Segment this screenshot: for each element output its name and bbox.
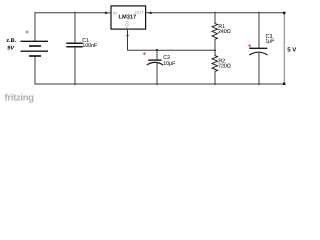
wire ADJ pin to R1/R2 divider junction xyxy=(128,36,216,51)
svg-text:IN: IN xyxy=(113,10,117,15)
C3 plus mark xyxy=(248,44,251,47)
resistor R1 240 ohm xyxy=(212,12,217,50)
label R1 240 xyxy=(218,24,231,35)
pin ADJ stub xyxy=(127,29,129,35)
wire top rail right (LM317 OUT pin to output node) xyxy=(151,12,284,14)
C2 plus mark xyxy=(143,52,146,55)
svg-text:OUT: OUT xyxy=(135,10,144,15)
svg-text:1µF: 1µF xyxy=(265,39,275,45)
wire output load (gray) xyxy=(283,13,285,84)
node output bottom terminal xyxy=(283,83,285,85)
svg-text:LM317: LM317 xyxy=(119,14,137,20)
svg-text:ADJ: ADJ xyxy=(124,21,129,29)
svg-text:z.B.: z.B. xyxy=(6,38,16,44)
node ADJ/R1/R2 junction xyxy=(214,49,216,51)
wire top rail left (battery+ to LM317 IN pin) xyxy=(35,13,106,42)
capacitor C1 xyxy=(66,12,82,85)
capacitor C3 (electrolytic 1uF) xyxy=(249,12,267,85)
node output top terminal xyxy=(283,12,285,14)
svg-text:720Ω: 720Ω xyxy=(218,63,231,69)
node C2 tap junction xyxy=(156,49,158,51)
regulator U1 LM317 xyxy=(105,6,152,37)
battery z.B. 9V xyxy=(21,41,49,56)
wire bottom ground rail xyxy=(35,56,283,84)
pin OUT stub xyxy=(146,12,151,14)
label C2 10uF xyxy=(163,55,176,67)
svg-text:100nF: 100nF xyxy=(82,43,98,49)
svg-text:240Ω: 240Ω xyxy=(218,29,231,35)
svg-text:5 V: 5 V xyxy=(287,46,296,53)
pin IN stub xyxy=(106,12,111,14)
svg-text:10µF: 10µF xyxy=(163,61,176,67)
label C3 1uF xyxy=(265,34,275,45)
svg-text:fritzing: fritzing xyxy=(5,92,35,103)
label R2 720 xyxy=(218,58,231,69)
label C1 100nF xyxy=(82,38,98,49)
battery plus mark xyxy=(25,30,28,33)
battery label z.B. 9V xyxy=(6,38,16,52)
resistor R2 720 ohm xyxy=(212,50,217,85)
capacitor C2 (electrolytic 10uF) xyxy=(147,50,163,85)
